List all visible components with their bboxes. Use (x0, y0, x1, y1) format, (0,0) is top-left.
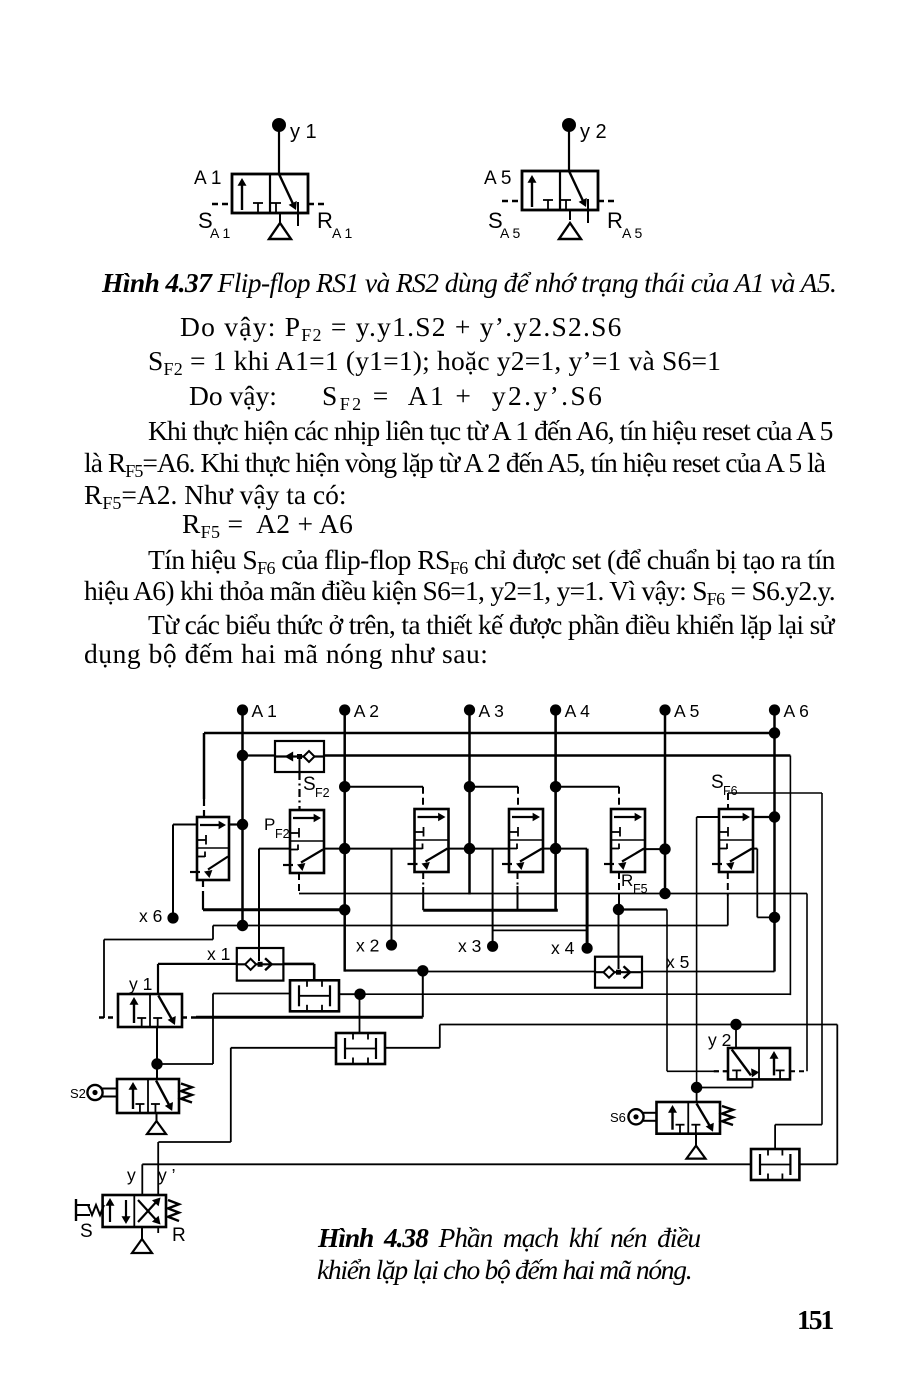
wire A4 vertical (554, 710, 557, 911)
spring S6 (722, 1106, 733, 1125)
wire y925 to y1 pilot (212, 926, 214, 940)
wire RF5 right (643, 848, 665, 850)
svg-text:R: R (621, 871, 633, 890)
svg-text:A 4: A 4 (565, 701, 591, 721)
svg-text:A 5: A 5 (622, 225, 642, 241)
wire bus right drop (789, 756, 791, 996)
wire PF2 left port (259, 848, 290, 850)
svg-text:S6: S6 (610, 1110, 626, 1125)
wire T1 right (339, 993, 360, 995)
wire V3 right (542, 848, 556, 850)
valve y2 (728, 1048, 790, 1079)
wire PF2 right port (324, 848, 345, 850)
wire A5 vertical (664, 710, 667, 894)
pilot signal y 1 (272, 118, 286, 132)
valve RF5 (604, 809, 645, 872)
wire bus shuttle SF2 output (324, 754, 790, 757)
svg-text:y 2: y 2 (708, 1030, 731, 1050)
wire S6 top (696, 1088, 698, 1103)
wire SF6 left to S6 (697, 816, 719, 818)
svg-text:F2: F2 (315, 786, 330, 800)
wire SF2 to PF2 pilot (299, 758, 301, 772)
wire bus A6 top (204, 732, 775, 735)
exhaust S valve (141, 1227, 143, 1239)
wire (241, 184, 243, 210)
svg-text:A 1: A 1 (210, 225, 230, 241)
svg-text:x 5: x 5 (666, 952, 689, 972)
wire (212, 203, 232, 205)
exhaust S6 (695, 1134, 697, 1146)
node A 5 (659, 704, 670, 715)
wire y1 left pilot (99, 1016, 118, 1018)
wire y994 line (360, 993, 790, 995)
wire thick y909 mid (423, 909, 558, 912)
wire x4 drop (586, 849, 589, 949)
wire y1 output thick (196, 1016, 423, 1019)
wire SF6 bottom (727, 872, 729, 896)
svg-text:A 1: A 1 (194, 168, 221, 189)
wire V2 bottom (422, 871, 424, 887)
wire (531, 181, 533, 207)
shuttle valve SF2 (275, 741, 324, 772)
wire T3 top (774, 1125, 776, 1149)
wire A3 pilot (464, 781, 475, 792)
wire RF5 bottom (618, 872, 620, 893)
spring S valve (168, 1200, 179, 1221)
valve PF2 (283, 810, 324, 873)
flip-flop valve A 1 (232, 174, 308, 213)
svg-text:y 2: y 2 (580, 121, 607, 143)
wire bus y1024 (440, 1024, 838, 1026)
node x3 (487, 941, 498, 952)
wire RF5 to y2 pilot (619, 908, 668, 910)
wire S2 top (156, 1064, 158, 1079)
svg-text:x 2: x 2 (356, 936, 379, 956)
node x4 (582, 943, 593, 954)
wire SF6 pilot top (727, 793, 729, 809)
valve y1 (118, 994, 182, 1027)
flip-flop valve A 5 (522, 171, 598, 210)
svg-text:S: S (80, 1221, 93, 1242)
wire SF6 right to A6 (753, 848, 757, 850)
wire y-prime port (157, 1142, 159, 1195)
wire A2 vertical (343, 710, 346, 972)
wire V2 right (448, 848, 470, 850)
wire T1 left (213, 993, 290, 995)
wire y2 top (735, 1025, 737, 1049)
wire right drop to T3 (836, 1025, 838, 1165)
wire y port (141, 1164, 143, 1195)
throttle valve T1 (290, 980, 339, 1011)
wire x2 drop (391, 849, 393, 945)
exhaust (569, 210, 571, 220)
svg-text:y 1: y 1 (290, 121, 317, 143)
valve S6 (657, 1102, 721, 1134)
wire left valve bottom (202, 880, 204, 898)
valve S lever (75, 1199, 77, 1221)
wire left valve to x6 (173, 824, 197, 826)
wire A6 vertical (773, 710, 776, 972)
node A 3 (464, 704, 475, 715)
valve S internals (109, 1202, 111, 1222)
svg-text:F2: F2 (275, 827, 290, 841)
svg-text:x 1: x 1 (207, 944, 230, 964)
page number (797, 1306, 832, 1334)
svg-text:y: y (127, 1165, 136, 1185)
node x6 (167, 912, 178, 923)
svg-text:y 1: y 1 (129, 974, 152, 994)
svg-text:x 6: x 6 (139, 906, 162, 926)
wire T2 left (231, 1047, 336, 1049)
node x2 (386, 939, 397, 950)
svg-text:A 1: A 1 (252, 701, 277, 721)
wire x3 drop (492, 849, 494, 947)
wire y2 right pilot dash (790, 1070, 807, 1072)
wire y1 right pilot (182, 1016, 198, 1018)
wire SF6 top cell to A6 (753, 816, 775, 818)
spring S2 (181, 1084, 192, 1103)
shuttle valve x5 (595, 957, 642, 988)
svg-text:P: P (264, 815, 275, 834)
node RF5 junction (613, 904, 624, 915)
svg-text:A 5: A 5 (674, 701, 699, 721)
wire (502, 200, 522, 202)
wire T1 to T2 (359, 994, 361, 1033)
wire A1 to SF2 (237, 750, 248, 761)
svg-text:A 1: A 1 (332, 225, 352, 241)
wire y1 bottom (156, 1027, 158, 1064)
valve SF6 (712, 809, 753, 872)
svg-text:R: R (317, 208, 333, 233)
svg-text:y ’: y ’ (158, 1165, 176, 1185)
wire A2 pilot (339, 781, 350, 792)
wire long y893 (299, 893, 807, 895)
svg-text:S: S (303, 774, 316, 795)
wire y925 line (213, 925, 728, 927)
node A 6 (769, 704, 780, 715)
wire left valve to A1 (229, 823, 243, 825)
wire A1 vertical (241, 710, 244, 926)
valve S2 (117, 1079, 179, 1113)
wire T2 right (385, 1047, 440, 1049)
svg-text:S: S (711, 772, 724, 793)
wire x3 to x4 link (493, 929, 587, 931)
wire thick y909 left (203, 908, 345, 911)
wire y1 out to x1 (158, 963, 237, 965)
svg-text:F6: F6 (723, 784, 738, 798)
wire A2 to x5 left (423, 971, 595, 973)
pilot signal y 2 (562, 118, 576, 132)
wire RF5 to x5 shuttle (618, 910, 620, 970)
wire y bus (142, 1163, 751, 1165)
node A6 bus1 (769, 727, 780, 738)
wire y2 bottom to S6 (752, 1079, 754, 1087)
valve V3 (502, 809, 543, 872)
svg-text:A 3: A 3 (479, 701, 504, 721)
svg-text:x 4: x 4 (551, 938, 575, 958)
button S2 (87, 1085, 117, 1100)
wire V3 bottom (517, 871, 519, 886)
valve left (x6 valve) (190, 817, 229, 880)
node A 4 (550, 704, 561, 715)
wire x5 out to A6 (642, 971, 775, 973)
valve V2 (408, 809, 449, 872)
exhaust (279, 213, 281, 223)
node A5 y893 (659, 888, 670, 899)
wire A4 to RF5 left (556, 848, 588, 850)
button S6 (628, 1109, 656, 1124)
svg-text:R: R (607, 208, 623, 233)
node A 2 (339, 704, 350, 715)
node A 1 (237, 704, 248, 715)
valve S main (103, 1195, 166, 1227)
wire y2 left pilot dash (714, 1070, 728, 1072)
wire A3 to V3 left (470, 848, 510, 850)
wire pilot left valve (203, 799, 205, 817)
throttle valve T2 (336, 1033, 385, 1064)
wire A4 pilot (550, 781, 561, 792)
svg-text:A 6: A 6 (784, 701, 809, 721)
wire A2 to V2 left (345, 848, 415, 850)
svg-text:A 2: A 2 (354, 701, 379, 721)
svg-text:x 3: x 3 (458, 936, 481, 956)
svg-text:A 5: A 5 (500, 225, 520, 241)
wire A3 vertical (468, 710, 471, 895)
exhaust S2 (156, 1113, 158, 1121)
wire PF2 bottom (298, 873, 300, 894)
svg-text:S2: S2 (70, 1086, 86, 1101)
svg-text:R: R (172, 1225, 186, 1246)
shuttle valve x1 (237, 948, 284, 981)
throttle valve T3 (751, 1149, 799, 1180)
wire x1 out to throttle1 (283, 963, 314, 966)
svg-text:A 5: A 5 (484, 168, 511, 189)
